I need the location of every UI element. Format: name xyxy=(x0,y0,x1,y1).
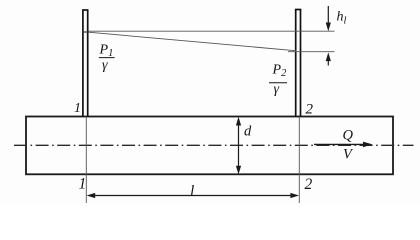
flow arrow on axis xyxy=(314,142,373,148)
piezometer tube 1 xyxy=(82,10,88,117)
svg-text:Q: Q xyxy=(343,128,354,144)
section line 1 xyxy=(85,117,87,204)
diameter dimension d xyxy=(236,117,241,175)
svg-text:γ: γ xyxy=(274,82,280,97)
head-loss dimension h_l xyxy=(326,6,331,66)
svg-text:2: 2 xyxy=(306,102,314,118)
section line 2 xyxy=(298,117,300,204)
piezometric level line (horizontal from level 1) xyxy=(89,30,335,32)
svg-text:P2: P2 xyxy=(272,63,288,80)
label P1/gamma xyxy=(99,43,115,73)
length dimension l xyxy=(87,193,300,198)
svg-text:V: V xyxy=(343,147,354,163)
svg-text:d: d xyxy=(244,124,252,140)
pipe body rectangle xyxy=(26,117,393,175)
piezometer tube 2 xyxy=(295,9,301,117)
svg-text:l: l xyxy=(190,183,194,200)
svg-text:1: 1 xyxy=(74,101,81,116)
pipe centerline (dash-dot axis) xyxy=(14,144,414,146)
water level mark tube 2 xyxy=(288,51,335,53)
water level mark tube 1 xyxy=(82,31,88,33)
svg-text:2: 2 xyxy=(305,176,313,193)
label P2/gamma xyxy=(269,63,287,97)
hydraulic grade line (sloping level 1 to level 2) xyxy=(89,32,297,51)
svg-text:1: 1 xyxy=(79,175,87,192)
svg-text:hl: hl xyxy=(337,10,347,27)
svg-text:P1: P1 xyxy=(99,43,114,60)
svg-text:γ: γ xyxy=(102,58,108,73)
